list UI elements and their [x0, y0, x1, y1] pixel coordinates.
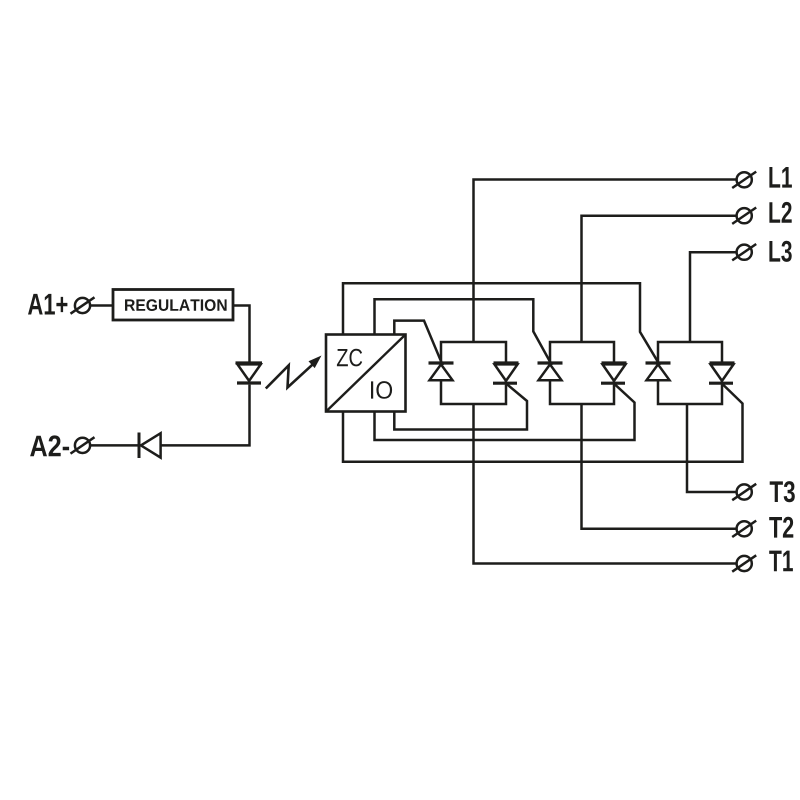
thyristor Q1a (up): [429, 363, 454, 380]
wire A1+ to REGULATION: [90, 304, 113, 307]
light arrow (optocoupler): [266, 356, 322, 389]
gate wire ZC to module 1 left thyristor: [394, 321, 442, 366]
label REGULATION: [125, 299, 227, 311]
label T2: [769, 517, 793, 538]
terminal T2: [732, 521, 756, 537]
LED D1 (optocoupler emitter): [236, 363, 263, 383]
label IO: [371, 381, 392, 399]
thyristor Q3a (up): [646, 363, 671, 380]
wire L1: [474, 180, 737, 343]
gate wire ZC to module 2 left thyristor: [375, 299, 552, 365]
thyristor Q2a (up): [538, 363, 563, 380]
terminal T3: [732, 484, 756, 500]
op-block U1 ZC/IO box: [326, 335, 406, 412]
thyristor Q2b (down): [601, 363, 627, 383]
terminal L1: [732, 172, 756, 188]
label L3: [769, 241, 791, 262]
label L2: [769, 202, 791, 223]
terminal L3: [732, 244, 756, 260]
wire L3: [690, 252, 737, 342]
label A1+: [28, 294, 67, 315]
terminal T1: [732, 555, 756, 571]
thyristor module 2 box: [550, 342, 614, 404]
terminal A1+: [71, 297, 95, 313]
wire diode to A2-: [90, 444, 139, 447]
label ZC: [337, 349, 362, 367]
diode D2: [139, 433, 161, 459]
wire L2: [582, 216, 737, 342]
terminal A2-: [71, 437, 95, 453]
gate wire module 3 right thyristor to ZC: [343, 382, 743, 462]
gate wire ZC to module 3 left thyristor: [343, 283, 660, 365]
thyristor Q3b (down): [709, 363, 735, 383]
wire REGULATION to LED: [233, 306, 250, 362]
gate wire module 2 right thyristor to ZC: [375, 382, 635, 440]
wire T1: [474, 404, 737, 564]
terminal L2: [732, 208, 756, 224]
label L1: [769, 167, 792, 188]
thyristor Q1b (down): [493, 363, 519, 383]
thyristor module 3 box: [658, 342, 722, 404]
REGULATION box: [113, 290, 233, 321]
label A2-: [30, 435, 69, 456]
gate wire module 1 right thyristor to ZC: [394, 382, 527, 430]
label T1: [769, 551, 793, 572]
label T3: [770, 481, 795, 502]
thyristor module 1 box: [441, 342, 506, 404]
wire T3: [687, 404, 737, 492]
wire LED to corner: [161, 385, 250, 446]
wire T2: [582, 404, 737, 529]
